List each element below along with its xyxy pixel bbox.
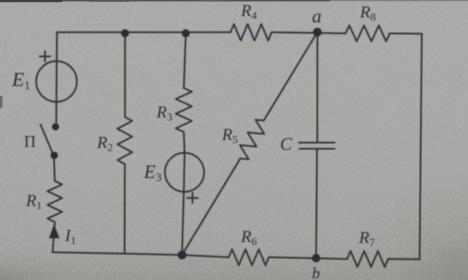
- svg-text:C: C: [280, 134, 293, 154]
- svg-text:b: b: [312, 266, 320, 280]
- svg-text:П: П: [24, 132, 36, 151]
- svg-text:a: a: [312, 7, 322, 28]
